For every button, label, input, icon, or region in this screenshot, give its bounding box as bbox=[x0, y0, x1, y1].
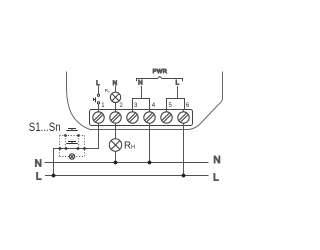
terminal strip block bbox=[90, 110, 193, 126]
S1 contact dots bbox=[64, 134, 67, 137]
junction PB2 left contact bbox=[65, 147, 68, 150]
junction on rail at dashed right edge bbox=[83, 147, 86, 150]
wire: terminal 2 to lamp RH bbox=[115, 123, 117, 139]
screw terminal 1 bbox=[93, 112, 104, 123]
svg-text:Ro: Ro bbox=[105, 88, 110, 94]
svg-text:RH: RH bbox=[124, 140, 135, 151]
wire: terminal 4 to N bus bbox=[149, 123, 151, 163]
small backlight lamp in dashed box bbox=[69, 154, 74, 159]
pushbutton S2 (lower) bbox=[66, 142, 78, 144]
wire: N stub to lamp Rb bbox=[115, 86, 117, 92]
screw terminal 3 bbox=[127, 112, 138, 123]
svg-text:3: 3 bbox=[134, 103, 138, 109]
N input connector box (terminals 3-4) bbox=[133, 99, 150, 110]
wire: pushbutton to terminal 1 bbox=[98, 104, 100, 112]
svg-text:PWR: PWR bbox=[153, 69, 168, 75]
junction: switch rail at L bus bbox=[52, 174, 56, 178]
svg-text:1: 1 bbox=[101, 103, 105, 109]
lamp Rb bbox=[110, 92, 120, 102]
svg-text:N: N bbox=[213, 155, 220, 166]
screw terminal 2 bbox=[110, 112, 121, 123]
svg-text:2: 2 bbox=[120, 103, 124, 109]
L input connector box (terminals 5-6) bbox=[167, 99, 185, 110]
terminal number labels 1-6 bbox=[101, 103, 190, 109]
lamp RH (load) bbox=[109, 139, 121, 151]
svg-text:4: 4 bbox=[152, 103, 156, 109]
svg-text:L: L bbox=[36, 171, 42, 182]
PWR bracket bbox=[137, 76, 183, 81]
N bus line bbox=[45, 162, 209, 164]
screw terminal 6 bbox=[178, 112, 189, 123]
svg-text:N: N bbox=[35, 159, 42, 170]
pushbutton S (at terminal 1) bbox=[94, 94, 100, 104]
wire: terminal 6 to L bus bbox=[183, 123, 185, 176]
wire: lamp RH to N bus bbox=[115, 151, 117, 162]
junction: terminal 4 at N bus bbox=[148, 161, 152, 165]
wire: L stub to pushbutton bbox=[98, 86, 100, 94]
wire: box A stubs to screws 3,4 bbox=[133, 110, 150, 113]
junction: RH to N bus bbox=[114, 161, 118, 165]
svg-text:5: 5 bbox=[169, 103, 173, 109]
svg-text:6: 6 bbox=[186, 103, 190, 109]
pushbutton S1 (top) bbox=[66, 129, 78, 131]
svg-text:L: L bbox=[176, 79, 180, 86]
svg-text:S1...Sn: S1...Sn bbox=[29, 120, 61, 134]
dashed expansion box S1...Sn bbox=[60, 136, 85, 157]
wire: N feed down to box A bbox=[141, 86, 143, 99]
device outline (flush-mount box, open U shape) bbox=[67, 72, 223, 130]
junction on rail at dashed left edge bbox=[59, 147, 62, 150]
wire: terminal 1 down to switch rail bbox=[54, 123, 99, 176]
L bus line bbox=[45, 175, 209, 177]
wire: L feed down to box B bbox=[177, 86, 179, 99]
wire: lamp Rb to terminal 2 bbox=[115, 103, 117, 113]
junction PB2 right contact bbox=[77, 147, 80, 150]
svg-text:L: L bbox=[213, 173, 219, 184]
svg-text:N: N bbox=[138, 79, 143, 86]
wire: box B stubs to screws 5,6 bbox=[167, 110, 184, 113]
screw terminal 5 bbox=[161, 112, 172, 123]
junction: terminal 6 at L bus bbox=[182, 174, 186, 178]
screw terminal 4 bbox=[144, 112, 155, 123]
